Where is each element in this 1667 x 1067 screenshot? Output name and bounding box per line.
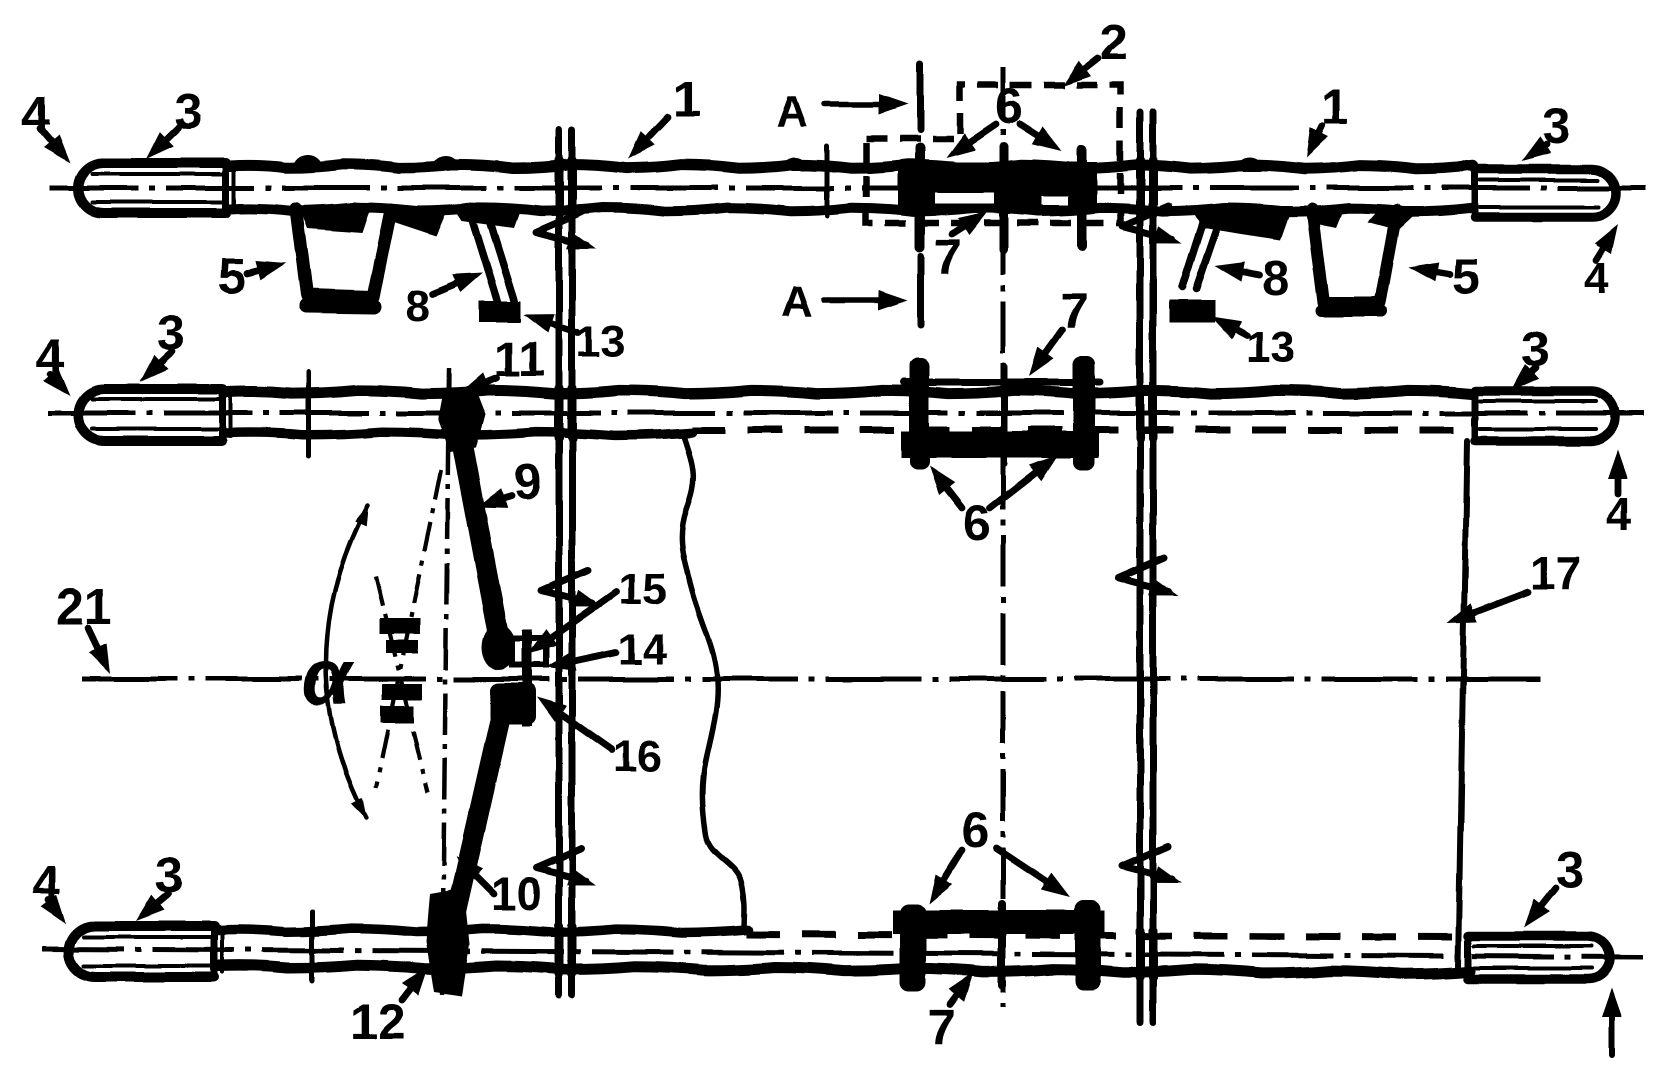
leader for A upper [824, 94, 908, 114]
leader 4 bottom-left [41, 895, 66, 924]
middle draw-bar left end sleeve 3 [78, 389, 230, 441]
break mark on right rail (top) [1122, 206, 1182, 243]
pivot upper boss [482, 624, 516, 670]
rod 1 collar tick [825, 146, 830, 216]
svg-text:8: 8 [405, 282, 429, 331]
label A (lower) [781, 277, 813, 326]
rod 1 surface bump [785, 160, 805, 168]
pivot plate 15 (white square) [512, 638, 546, 665]
leader 4 top-right [1594, 224, 1618, 260]
coupling bolt (right) bottom [1075, 900, 1101, 990]
leader 11 [460, 373, 497, 393]
svg-text:15: 15 [618, 565, 667, 614]
label 13 (left) [576, 317, 625, 366]
leader 17 [1447, 592, 1528, 623]
link 10 (lower tilted bar) [446, 712, 502, 958]
rod 1 left end sleeve 3 [78, 163, 234, 213]
node centerline of bottom draw-bar [42, 949, 1642, 957]
torn edge (break line) of shield 17 [681, 437, 744, 930]
coupling bolt (right) middle [1073, 356, 1095, 470]
label 14 [618, 625, 667, 674]
label 16 [613, 732, 662, 781]
leader 3 mid-left [140, 352, 172, 382]
axis of links (dash-dot, tilted) [376, 470, 441, 788]
svg-text:9: 9 [514, 454, 542, 510]
section line A-A upper tick [917, 64, 924, 130]
leader for A lower [824, 290, 908, 310]
leader 3 top-right [1521, 136, 1551, 161]
pivot lower boss 16 [490, 683, 536, 725]
angle alpha arc [326, 503, 369, 820]
label 6 (top) [995, 78, 1023, 134]
label 3 (top-right) [1542, 98, 1570, 154]
section line A-A lower tick [918, 256, 925, 325]
leader 4 top-left [40, 128, 70, 163]
svg-text:16: 16 [613, 732, 662, 781]
coupling 6 on bottom draw-bar top plate [893, 910, 1105, 934]
coupling bolt (left) on rod 1 [915, 148, 925, 247]
label 3 (bottom-left) [155, 847, 183, 903]
leader 7 bottom [949, 972, 974, 1004]
label 3 (bottom-right) [1556, 842, 1584, 898]
label 5 (right) [1452, 248, 1480, 304]
label 7 (bottom) [928, 999, 956, 1055]
hidden edge (dashed) along middle draw-bar [692, 427, 1460, 434]
svg-text:2: 2 [1100, 14, 1128, 70]
coupling bolt (left) bottom [900, 904, 926, 992]
label 8 (right) [1262, 250, 1290, 306]
shoe 5 (right) below rod 1 [1303, 206, 1424, 311]
bottom draw-bar right end sleeve 3 [1468, 936, 1610, 979]
pad 13 (right) at strut foot [1169, 300, 1215, 323]
svg-text:A: A [776, 87, 808, 136]
label 1 (top) [673, 71, 701, 127]
middle draw-bar body [226, 390, 1473, 435]
leader 10 [456, 856, 494, 894]
node centerline of rod 1 (top draw-bar axis) [50, 186, 1650, 191]
label A (upper) [776, 87, 808, 136]
leader 15 [528, 592, 616, 654]
break mark on left rail (top) [536, 212, 596, 249]
svg-text:1: 1 [673, 71, 701, 127]
coupling bolt (right) on rod 1 [1077, 150, 1087, 246]
label 3 (mid-right) [1522, 321, 1550, 377]
shoe 5 (left) below rod 1 [296, 206, 449, 307]
leader 7 top [952, 211, 988, 235]
rod 1 body (top draw-bar) [230, 164, 1473, 212]
svg-text:10: 10 [491, 868, 542, 920]
middle draw-bar collar tick [307, 372, 312, 456]
leader 1 top-right [1306, 126, 1328, 158]
leader 6 bottom-right [996, 848, 1070, 897]
label 4 (mid-left) [36, 329, 64, 385]
rod 1 surface bump [296, 157, 320, 168]
svg-text:11: 11 [494, 334, 545, 387]
svg-text:12: 12 [350, 994, 406, 1050]
coupling bolt (left) middle [909, 358, 929, 470]
rail crossing ink (right rail / middle draw-bar) [1140, 388, 1153, 438]
leader 3 bottom-right [1524, 888, 1556, 928]
break mark on left rail (middle) [542, 570, 602, 607]
break mark on right rail (bottom) [1122, 846, 1182, 883]
leader 9 [477, 489, 512, 508]
node centerline of middle draw-bar [48, 411, 1648, 416]
coupling 6 on middle draw-bar bottom plate [901, 431, 1099, 458]
svg-text:14: 14 [618, 625, 667, 674]
leader 1 top [628, 117, 668, 159]
svg-text:13: 13 [576, 317, 625, 366]
screw block detail at axes crossing [380, 618, 422, 723]
label 13 (right) [1246, 323, 1295, 372]
rod 1 right end sleeve 3 [1475, 169, 1616, 217]
leader 8 right [1215, 262, 1259, 282]
leader 5 right [1409, 262, 1450, 282]
label 7 (top) [934, 229, 962, 285]
leader 2 [1062, 58, 1098, 86]
leader 6 top-right [1020, 124, 1062, 151]
axis of links (dash-dot, tilted mirror) [376, 576, 428, 792]
bottom draw-bar bottom edge [218, 965, 1470, 974]
rail crossing ink (right rail / bottom draw-bar) [1140, 930, 1153, 978]
pad 13 (left) at strut foot [479, 301, 521, 322]
strut 8 (right) under rod 1 [1182, 206, 1292, 289]
label 9 [514, 454, 542, 510]
node 21 longitudinal centerline [82, 677, 1540, 682]
leader 3 top-left [146, 128, 178, 159]
leader 4 mid-left [43, 368, 70, 396]
node vertical axis through couplings 6 [1001, 67, 1006, 1007]
leader 7 middle [1029, 330, 1062, 376]
svg-text:13: 13 [1246, 323, 1295, 372]
coupling 6 on rod 1 (black body) [898, 162, 1097, 213]
pivot pin 14 [522, 629, 532, 727]
label 8 (left) [405, 282, 429, 331]
leader 13 right [1211, 317, 1247, 339]
coupling 6 on middle draw-bar top plate [903, 379, 1100, 386]
label 1 (top-right) [1321, 79, 1349, 135]
label 10 [491, 868, 542, 920]
bottom draw-bar collar tick [310, 912, 315, 982]
leader 16 [537, 697, 612, 750]
svg-text:5: 5 [218, 248, 246, 304]
rail (right) of track [1140, 112, 1153, 1022]
rail crossing ink (left rail / rod 1) [559, 160, 572, 214]
bottom draw-bar left end sleeve 3 [69, 926, 222, 977]
label 3 (mid-left) [157, 305, 185, 361]
label 7 (middle coupling) [1060, 283, 1088, 339]
rail crossing ink (left rail / middle draw-bar) [559, 388, 572, 438]
svg-text:17: 17 [1530, 547, 1581, 599]
leader 14 [546, 651, 616, 671]
leader 21 [88, 628, 110, 674]
label 5 (left) [218, 248, 246, 304]
label 15 [618, 565, 667, 614]
joint 11 on middle draw-bar [438, 388, 485, 452]
rail crossing ink (right rail / rod 1) [1140, 160, 1153, 214]
leader arrow at bottom-right rod end [1602, 988, 1622, 1055]
leader 3 bottom-left [136, 894, 168, 921]
svg-text:7: 7 [934, 229, 962, 285]
svg-text:5: 5 [1452, 248, 1480, 304]
leader 4 mid-right [1608, 450, 1628, 494]
label 4 (top-left) [22, 86, 50, 142]
coupling bolt (center) bottom [998, 904, 1006, 986]
leader 3 mid-right [1511, 364, 1539, 391]
label 12 [350, 994, 406, 1050]
leader 6 bottom-left [929, 850, 962, 904]
coupling bolt (center) middle [1001, 366, 1008, 464]
hidden edge (dashed) along bottom draw-bar [746, 934, 1458, 937]
label 4 (mid-right) [1606, 488, 1632, 540]
bottom draw-bar body left [218, 929, 748, 933]
label 6 (middle) [963, 495, 991, 551]
svg-text:A: A [781, 277, 813, 326]
label 4 (bottom-left) [32, 856, 60, 912]
svg-text:6: 6 [963, 495, 991, 551]
rail crossing ink (left rail / bottom draw-bar) [559, 926, 572, 974]
link 9 (upper tilted bar) [457, 416, 499, 638]
right edge of shield 17 [1458, 441, 1467, 967]
leader 8 left [432, 273, 483, 294]
strut 8 (left) under rod 1 [452, 206, 522, 305]
label alpha [302, 632, 355, 721]
axis through joints 11 and 12 (dash-dot) [442, 368, 449, 1002]
leader 13 left [524, 314, 578, 333]
rod 1 surface bump [1239, 160, 1261, 169]
svg-text:7: 7 [928, 999, 956, 1055]
label 17 [1530, 547, 1581, 599]
leader 6 mid-left [929, 466, 962, 508]
rod 1 surface bump [435, 158, 457, 168]
coupling bolt (middle) on rod 1 [1000, 146, 1009, 250]
rail (left) of track [559, 130, 572, 995]
label 11 [494, 334, 545, 387]
svg-text:α: α [302, 632, 355, 721]
label 21 [56, 579, 112, 635]
label 3 (top-left) [174, 84, 202, 140]
leader 5 left [247, 261, 286, 280]
leader 6 top-left [946, 124, 996, 158]
label 6 (bottom) [961, 802, 989, 858]
break mark on right rail (middle) [1118, 558, 1178, 595]
svg-text:3: 3 [1556, 842, 1584, 898]
svg-text:8: 8 [1262, 250, 1290, 306]
dashed enclosure 2 around coupling [866, 85, 1120, 223]
break mark on left rail (bottom) [536, 848, 596, 885]
leader 12 [402, 966, 428, 1000]
label 4 (top-right) [1584, 254, 1609, 303]
joint 12 on bottom draw-bar [426, 888, 470, 996]
middle draw-bar right end sleeve 3 [1475, 391, 1615, 441]
svg-text:21: 21 [56, 579, 112, 635]
label 2 [1100, 14, 1128, 70]
leader 6 mid-right [990, 455, 1058, 508]
